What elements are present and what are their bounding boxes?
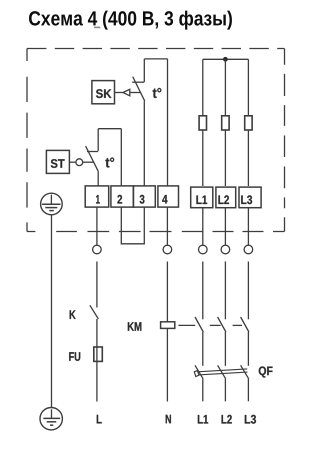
contactor contact KM pole 2 [218,317,226,332]
label t° (lower) [105,157,114,167]
wire heater top bus [203,58,249,60]
label terminal L2 [218,195,229,204]
wire terminal 1 drop [96,207,98,245]
circuit breaker QF pole 2 blade [218,365,226,379]
wire L upper segment [96,262,98,308]
thermostat SK contact t° (upper) [132,59,167,186]
connector circle L2 line [221,245,230,254]
protective earth symbol (inside enclosure) [41,193,63,215]
wire terminal L1 drop [202,208,204,245]
contactor coil KM [161,322,175,329]
label L1 [198,415,208,424]
contactor contact KM pole 3 [241,317,249,332]
label L3 [245,415,256,424]
circuit breaker QF pole 3 blade [241,365,249,379]
label L [97,415,102,424]
label K [70,310,76,319]
wire L1 middle segment [202,332,204,366]
fuse FU [94,347,103,361]
label t° (upper) [153,88,162,98]
heating element EK1 [199,59,206,186]
heating element EK2 [222,59,229,186]
wire jumper terminals 2-3 [121,207,144,244]
wire N upper segment [166,262,168,323]
mechanical link ST circle [69,159,93,166]
label terminal 3 [140,195,145,204]
wire L2 lower segment [224,379,226,402]
wire FU to L end [96,361,98,401]
label QF [259,366,273,377]
label terminal L3 [241,195,252,204]
mechanical link SK arrow [115,89,141,96]
mechanical link KM dashes [178,324,242,326]
contactor contact KM pole 1 [195,317,203,332]
connector circle N line [163,245,172,254]
switch K [90,305,99,319]
wire earth bond [51,215,53,407]
heating element EK3 [245,59,252,186]
wire K to FU [96,319,98,347]
title Схема 4 (400 В, 3 фазы) [29,11,232,30]
wire terminal L3 drop [247,208,249,245]
wire L3 middle segment [247,332,249,366]
label terminal 4 [162,195,167,204]
wire terminal 4 drop [166,207,168,245]
label KM [128,322,142,331]
label SK [96,89,112,98]
circuit breaker QF trip bar [194,369,247,377]
label L2 [222,415,232,424]
label FU [69,352,80,361]
wire L3 lower segment [247,379,249,402]
label terminal L1 [196,195,207,204]
connector circle L1 line [199,245,208,254]
terminal block X1 terminals 1-4 [85,186,178,207]
node junction dot [223,57,228,62]
wire L2 upper segment [224,262,226,320]
protective earth symbol (bottom) [40,408,62,430]
connector circle L3 line [244,245,253,254]
wire L3 upper segment [247,262,249,320]
label terminal 2 [117,195,122,204]
label terminal 1 [96,195,100,204]
connector circle L line [93,245,102,254]
wire L2 middle segment [224,332,226,366]
thermostat box ST [46,150,69,173]
sensor box SK [92,81,115,104]
circuit breaker QF pole 1 blade [195,365,203,379]
wire L1 upper segment [202,262,204,320]
wire terminal L2 drop [224,208,226,245]
wire L1 lower segment [202,379,204,402]
enclosure dashed box [27,49,285,232]
label N [166,415,171,424]
label ST [51,159,65,168]
thermostat ST contact t° (lower) [86,129,122,186]
terminal block X2 terminals L1-L3 [191,187,261,208]
wire N lower segment [166,328,168,401]
